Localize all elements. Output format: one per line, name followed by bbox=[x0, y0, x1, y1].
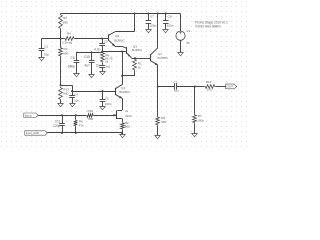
svg-text:BC850C: BC850C bbox=[114, 39, 125, 43]
ground bbox=[163, 30, 169, 33]
wire bbox=[76, 52, 102, 54]
transistor Q2 bbox=[109, 32, 125, 47]
junction bbox=[91, 51, 93, 53]
junction bbox=[75, 114, 77, 116]
transistor Q1 bbox=[115, 85, 130, 99]
wire J1 source bbox=[117, 119, 123, 122]
svg-text:680: 680 bbox=[125, 125, 130, 129]
junction bbox=[61, 132, 63, 134]
title text bbox=[195, 20, 228, 28]
svg-text:Q2: Q2 bbox=[115, 34, 119, 38]
svg-text:J310: J310 bbox=[125, 114, 132, 118]
svg-text:R2: R2 bbox=[63, 16, 67, 20]
wire Q4 collector bbox=[151, 14, 158, 55]
wire bbox=[194, 124, 196, 134]
ground bbox=[58, 104, 64, 107]
svg-text:30: 30 bbox=[186, 41, 190, 45]
svg-text:V1: V1 bbox=[187, 29, 191, 33]
capacitor C7 bbox=[146, 14, 157, 30]
junction bbox=[147, 13, 149, 15]
wire bbox=[122, 71, 135, 76]
svg-text:Input: Input bbox=[25, 114, 32, 118]
svg-text:2n2: 2n2 bbox=[105, 65, 110, 69]
junction bbox=[75, 132, 77, 134]
capacitor Cg bbox=[96, 63, 111, 71]
wire bbox=[60, 39, 62, 47]
flag Input_GND bbox=[25, 131, 48, 135]
svg-text:R14: R14 bbox=[206, 80, 212, 84]
wire bbox=[60, 101, 62, 104]
ground bbox=[100, 107, 106, 110]
junction bbox=[101, 38, 103, 40]
svg-text:C2: C2 bbox=[174, 81, 178, 85]
svg-text:©2010 Alex Nikitin: ©2010 Alex Nikitin bbox=[195, 24, 221, 28]
wire bbox=[60, 30, 62, 39]
svg-text:Cs: Cs bbox=[96, 63, 100, 67]
transistor Q4 bbox=[151, 52, 169, 65]
wire feedback row bbox=[72, 91, 115, 93]
junction bbox=[102, 90, 104, 92]
svg-text:C8: C8 bbox=[168, 14, 172, 18]
svg-text:Input_GND: Input_GND bbox=[26, 131, 39, 135]
resistor R15 bbox=[86, 109, 94, 121]
svg-text:C3: C3 bbox=[104, 40, 108, 44]
svg-text:680: 680 bbox=[63, 92, 68, 96]
svg-text:C11: C11 bbox=[55, 120, 61, 124]
svg-text:C5: C5 bbox=[105, 97, 109, 101]
svg-text:1k: 1k bbox=[105, 59, 109, 63]
svg-text:690: 690 bbox=[63, 21, 68, 25]
svg-text:OUT: OUT bbox=[227, 85, 234, 89]
svg-text:10u: 10u bbox=[74, 98, 79, 102]
svg-text:C6: C6 bbox=[70, 56, 74, 60]
wire bbox=[60, 57, 62, 85]
ground bbox=[70, 104, 76, 107]
wire bbox=[61, 85, 73, 91]
svg-text:BC860C: BC860C bbox=[132, 48, 143, 52]
svg-text:J1: J1 bbox=[125, 109, 129, 113]
ground bbox=[178, 53, 184, 56]
resistor R5 bbox=[156, 87, 167, 126]
resistor R7 bbox=[193, 87, 205, 124]
capacitor C2 bbox=[174, 81, 180, 93]
ground bbox=[39, 58, 45, 61]
junction bbox=[101, 51, 103, 53]
wire bbox=[195, 86, 226, 88]
svg-text:R3: R3 bbox=[64, 47, 68, 51]
wire Q4 emitter bbox=[157, 65, 159, 87]
wire Q2 collector bbox=[116, 14, 135, 32]
junction bbox=[157, 86, 159, 88]
resistor R6 bbox=[74, 115, 84, 133]
wire input row bbox=[38, 115, 86, 117]
svg-text:47k: 47k bbox=[79, 124, 84, 128]
wire bbox=[135, 58, 151, 60]
svg-text:120p: 120p bbox=[53, 124, 61, 128]
wire bbox=[132, 58, 136, 60]
svg-text:BC850C: BC850C bbox=[158, 56, 169, 60]
wire output row bbox=[158, 86, 175, 88]
svg-text:680: 680 bbox=[63, 52, 68, 56]
wire bbox=[94, 115, 112, 117]
svg-text:33p: 33p bbox=[44, 53, 49, 57]
capacitor C4 bbox=[69, 91, 79, 103]
wire bbox=[122, 133, 124, 135]
ground bbox=[89, 75, 95, 78]
ground bbox=[120, 135, 126, 138]
wire bbox=[75, 38, 108, 40]
ground bbox=[155, 136, 161, 139]
junction bbox=[121, 51, 123, 53]
ground bbox=[146, 30, 152, 33]
capacitor C8 bbox=[163, 14, 174, 30]
junction bbox=[165, 13, 167, 15]
capacitor C6 bbox=[68, 52, 79, 73]
svg-text:100p: 100p bbox=[149, 23, 156, 27]
svg-text:680p: 680p bbox=[68, 65, 76, 69]
capacitor C10 bbox=[84, 52, 95, 74]
svg-text:100n: 100n bbox=[167, 23, 174, 27]
resistor R14 bbox=[204, 80, 215, 91]
svg-text:C1: C1 bbox=[44, 45, 48, 49]
svg-text:100: 100 bbox=[207, 87, 212, 91]
wire bbox=[177, 86, 195, 88]
capacitor C3 bbox=[94, 39, 108, 52]
junction bbox=[134, 57, 136, 59]
wire node A row bbox=[42, 38, 65, 40]
flag OUT bbox=[226, 84, 237, 89]
svg-text:100n: 100n bbox=[105, 102, 112, 106]
wire bbox=[157, 126, 159, 136]
junction bbox=[71, 90, 73, 92]
svg-text:R4: R4 bbox=[67, 31, 71, 35]
svg-text:R13: R13 bbox=[63, 87, 69, 91]
voltage source V1 bbox=[176, 29, 191, 45]
svg-text:650: 650 bbox=[88, 117, 93, 121]
junction bbox=[121, 132, 123, 134]
svg-text:C7: C7 bbox=[150, 14, 154, 18]
junction bbox=[157, 13, 159, 15]
svg-text:BC860C: BC860C bbox=[119, 90, 130, 94]
wire bbox=[122, 52, 124, 85]
svg-text:C10: C10 bbox=[84, 55, 90, 59]
jfet J1 bbox=[112, 109, 132, 119]
resistor R3 bbox=[59, 47, 69, 58]
resistor R4 bbox=[62, 31, 75, 44]
capacitor C1 bbox=[39, 39, 49, 58]
svg-text:100k: 100k bbox=[197, 118, 204, 122]
wire bbox=[122, 130, 124, 133]
svg-text:360: 360 bbox=[161, 120, 166, 124]
resistor R2 bbox=[59, 14, 69, 30]
ground bbox=[100, 72, 106, 75]
wire bbox=[117, 98, 122, 110]
svg-text:C4: C4 bbox=[74, 92, 78, 96]
capacitor C5 bbox=[100, 91, 112, 107]
wire input gnd row bbox=[47, 132, 122, 134]
svg-text:1k: 1k bbox=[138, 65, 142, 69]
junction bbox=[194, 86, 196, 88]
node B junction bbox=[60, 84, 62, 86]
wire bbox=[180, 40, 182, 52]
wire bbox=[180, 14, 182, 32]
resistor R1 bbox=[133, 58, 142, 71]
ground bbox=[74, 74, 80, 77]
node A junction bbox=[60, 38, 62, 40]
junction bbox=[134, 13, 136, 15]
junction bbox=[61, 114, 63, 116]
svg-text:2.2meg: 2.2meg bbox=[62, 40, 72, 44]
svg-text:4u7: 4u7 bbox=[84, 64, 90, 68]
wire Q2 emitter bbox=[115, 46, 122, 48]
flag Input bbox=[24, 113, 38, 118]
svg-text:4.7p: 4.7p bbox=[94, 47, 101, 51]
wire feedback net row bbox=[102, 51, 127, 53]
transistor Q3 bbox=[122, 45, 143, 59]
resistor R13 bbox=[59, 87, 70, 101]
ground bbox=[192, 134, 198, 137]
capacitor C11 bbox=[53, 115, 65, 133]
svg-text:Q4: Q4 bbox=[158, 52, 162, 56]
junction bbox=[121, 75, 123, 77]
resistor R2 source bbox=[121, 121, 130, 130]
wire top supply rail bbox=[61, 13, 181, 15]
svg-text:R15: R15 bbox=[88, 109, 94, 113]
svg-text:10u: 10u bbox=[174, 88, 179, 92]
resistor Rg bbox=[101, 52, 113, 64]
